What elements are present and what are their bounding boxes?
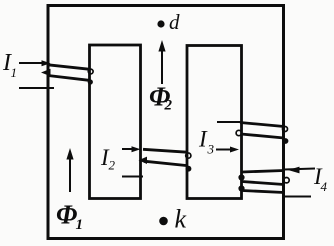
svg-text:d: d xyxy=(169,10,180,34)
I1 top lead wire with current arrow xyxy=(19,62,47,64)
flux arrow Phi2 xyxy=(158,40,165,84)
I3 arrow lead wire with current arrow xyxy=(216,149,233,151)
right window of core xyxy=(187,46,242,199)
svg-text:2: 2 xyxy=(109,158,116,173)
coil I4 winding on right leg xyxy=(238,167,315,197)
I4 left loop 1 xyxy=(238,174,244,180)
svg-text:1: 1 xyxy=(11,65,18,80)
I4 right loop xyxy=(284,178,289,183)
I2 right loop 1 xyxy=(186,153,191,158)
coil I2 winding on middle leg xyxy=(122,146,191,176)
I3 left loop xyxy=(236,130,241,135)
I1 bottom lead wire xyxy=(19,87,54,89)
I3 turn strand A xyxy=(240,123,284,127)
svg-text:4: 4 xyxy=(321,179,328,194)
I2 top lead wire with current arrow xyxy=(122,148,137,150)
magnetic core outer outline xyxy=(48,6,284,239)
I1 right loop 2 xyxy=(88,79,93,84)
I4 left loop 2 xyxy=(238,185,244,191)
I2 bottom lead wire xyxy=(122,176,143,178)
coil I3 winding on right leg xyxy=(216,122,288,153)
I4 bottom lead wire xyxy=(285,196,311,198)
label I3 xyxy=(198,127,215,157)
I1 left loop xyxy=(41,69,51,76)
svg-text:2: 2 xyxy=(164,98,173,114)
I3 right loop 1 xyxy=(283,127,288,132)
I3 right loop 2 xyxy=(283,138,289,144)
svg-text:Φ: Φ xyxy=(56,200,77,230)
I2 right loop 2 xyxy=(186,166,192,172)
label Phi1 xyxy=(56,200,83,234)
I1 turn strand B xyxy=(48,76,89,81)
I4 turn strand A xyxy=(242,171,284,173)
I3 top lead wire xyxy=(217,121,241,123)
I4 turn strand B xyxy=(242,182,284,185)
svg-text:1: 1 xyxy=(76,217,84,233)
label I4 xyxy=(313,164,328,194)
coil I1 winding on left leg xyxy=(19,60,93,88)
node k dot xyxy=(159,217,168,226)
svg-text:I: I xyxy=(198,127,208,152)
label Phi2 xyxy=(149,82,173,114)
svg-text:k: k xyxy=(175,205,187,234)
I3 turn strand B xyxy=(241,134,284,138)
I1 turn strand A xyxy=(48,65,90,70)
I1 right loop 1 xyxy=(88,69,93,74)
I4 top lead wire with current arrow xyxy=(284,169,315,170)
flux arrow Phi1 xyxy=(66,148,73,192)
I2 turn strand A xyxy=(143,149,187,152)
I4 turn strand C xyxy=(242,191,284,193)
I2 left loop xyxy=(139,157,148,164)
node d dot xyxy=(157,20,164,27)
svg-text:3: 3 xyxy=(207,142,215,157)
I2 turn strand B xyxy=(144,161,186,165)
label I1 xyxy=(2,50,17,80)
label I2 xyxy=(100,145,116,173)
left window of core xyxy=(90,45,141,199)
